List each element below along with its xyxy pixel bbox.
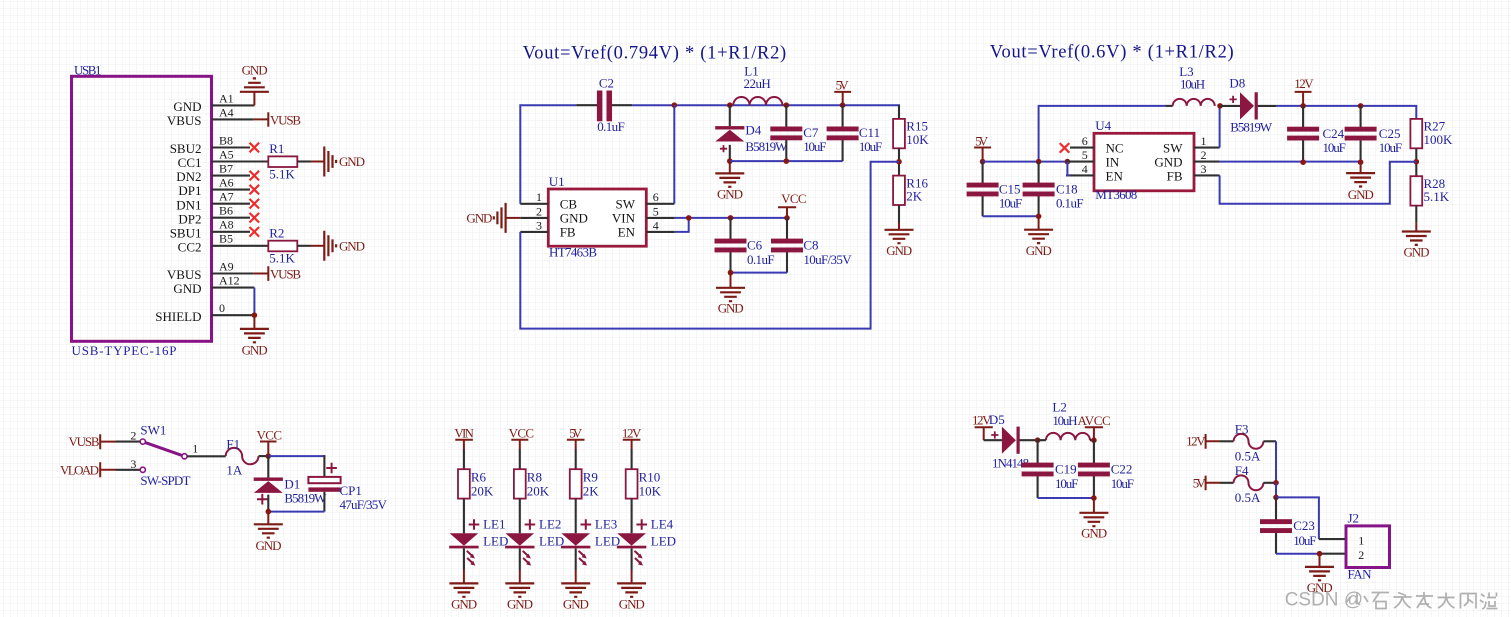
svg-text:U4: U4 [1095,118,1111,133]
junction (AVCC/C22) [1091,437,1097,443]
svg-text:GND: GND [1154,154,1182,169]
capacitor CP1 (polarized) [308,463,387,513]
junction (VCC node) [266,453,272,459]
svg-text:B8: B8 [219,133,233,147]
svg-text:0.5A: 0.5A [1235,490,1261,505]
ground (below R16) [885,230,914,258]
diode D4 B5819W [715,105,788,161]
junction (C6 bottom) [728,270,734,276]
net label VUSB (A9) [254,266,302,281]
svg-text:10uF: 10uF [859,139,882,154]
pin A1 GND [173,91,254,114]
svg-text:FB: FB [560,225,576,240]
junction (5V / C11) [840,102,846,108]
svg-text:CC1: CC1 [178,155,202,170]
svg-text:10uF: 10uF [1055,476,1078,491]
wire 12V to F3 [1220,440,1234,442]
svg-text:R9: R9 [583,470,598,485]
ground (LE3) [561,583,590,611]
svg-text:4: 4 [1082,162,1088,176]
svg-text:FB: FB [1167,168,1183,183]
svg-text:10uH: 10uH [1180,76,1205,91]
capacitor C24 [1287,106,1346,163]
svg-text:GND: GND [717,187,743,202]
svg-text:2: 2 [536,204,542,218]
svg-text:VIN: VIN [612,211,636,226]
svg-text:CB: CB [560,197,578,212]
wire F3 to node [1263,441,1276,483]
junction (C18 bottom) [1036,214,1042,220]
wire R28 to ground [1415,206,1417,232]
watermark CSDN [1285,590,1498,611]
svg-text:10uF/35V: 10uF/35V [803,252,852,267]
svg-text:VCC: VCC [257,428,283,443]
pin 0 SHIELD [155,301,254,324]
svg-text:GND: GND [173,281,201,296]
resistor R28 [1410,176,1449,206]
wire R9 to LE3 [575,499,577,534]
svg-text:VIN: VIN [454,425,474,440]
svg-text:0.5A: 0.5A [1235,448,1261,463]
wire node down [1275,483,1277,498]
wire boost top rail [1039,106,1417,162]
wire R1 to ground [297,160,324,162]
svg-text:LE3: LE3 [595,517,617,532]
power 5V [834,78,851,106]
svg-text:1: 1 [192,441,198,455]
ground (below C6) [716,273,745,316]
svg-text:5V: 5V [836,78,850,93]
pin B6 DP2 [178,204,250,227]
svg-text:LE1: LE1 [483,517,505,532]
junction (C25 top) [1358,103,1364,109]
wire F4 to node [1263,482,1276,484]
diode D5 1N4148 [984,412,1038,471]
svg-text:6: 6 [1082,134,1088,148]
svg-text:GND: GND [339,154,365,169]
svg-text:J2: J2 [1348,510,1360,525]
wire A1 to GND [253,92,255,106]
svg-text:VUSB: VUSB [69,434,100,449]
ground (LE1) [449,583,478,611]
resistor R9 [570,469,599,498]
svg-text:0.1uF: 0.1uF [747,252,775,267]
wire input rail [983,161,1066,163]
junction (C23 top node) [1273,495,1279,501]
svg-text:12V: 12V [622,425,642,440]
svg-text:HT7463B: HT7463B [549,245,597,260]
svg-text:R8: R8 [527,470,542,485]
svg-text:NC: NC [1106,140,1124,155]
wire output gnd rail [1220,162,1361,163]
svg-text:10K: 10K [639,483,662,498]
junction (shield node) [252,312,258,318]
diode D8 B5819W [1220,75,1276,134]
svg-text:B5819W: B5819W [745,139,788,154]
svg-text:0.1uF: 0.1uF [1056,196,1084,211]
svg-text:GND: GND [560,211,588,226]
power 12V (LED4) [622,425,642,449]
wire VCC to R8 [519,449,521,470]
svg-text:GND: GND [173,99,201,114]
junction (SW node top) [672,102,678,108]
svg-text:CSDN @: CSDN @ [1285,590,1363,611]
svg-text:FAN: FAN [1348,567,1373,582]
svg-text:10K: 10K [906,132,929,147]
svg-text:D1: D1 [284,477,300,492]
svg-text:VLOAD: VLOAD [60,462,99,477]
wire VIN rail [675,217,787,219]
diode D1 B5819W [254,456,327,512]
junction (L1 left / D4) [727,102,733,108]
junction (C7 bottom) [784,158,790,164]
svg-text:GND: GND [451,597,477,612]
junction (D1 bottom) [266,509,272,515]
svg-text:VUSB: VUSB [270,113,301,128]
pin A5 CC1 [178,147,269,170]
svg-text:20K: 20K [527,483,550,498]
svg-text:GND: GND [1404,245,1430,260]
wire R2 to ground [297,245,324,247]
svg-text:B6: B6 [219,204,233,218]
svg-text:A1: A1 [219,91,234,105]
ground GND (USB bottom) [240,315,269,357]
svg-text:1A: 1A [226,463,243,478]
junction (D5/L2/C19) [1035,437,1041,443]
inductor L1 [733,63,782,105]
junction (IN pin node) [1065,159,1071,165]
svg-text:A7: A7 [219,190,234,204]
resistor R1 [268,141,297,181]
svg-text:5V: 5V [569,425,583,440]
svg-text:GND: GND [1348,187,1374,202]
svg-text:VCC: VCC [781,191,807,206]
label USB-TYPEC-16P [72,343,177,358]
svg-text:DP1: DP1 [178,183,201,198]
svg-text:10uF: 10uF [999,196,1022,211]
power 12V [1294,76,1314,106]
no-connect X (U4 pin6) [1060,143,1070,153]
net label VLOAD [60,462,116,477]
svg-text:VUSB: VUSB [270,267,301,282]
wire LE2 to ground [519,548,521,583]
svg-text:VBUS: VBUS [167,267,202,282]
svg-text:C22: C22 [1111,461,1133,476]
wire LE1 to ground [463,548,465,583]
wire to J2 pin1 [1276,497,1346,539]
junction (12V/C24) [1300,103,1306,109]
fuse F3 [1234,422,1264,464]
svg-text:DN1: DN1 [176,197,201,212]
svg-text:B5: B5 [219,232,233,246]
svg-text:12V: 12V [1294,76,1314,91]
svg-text:B5819W: B5819W [284,491,327,506]
wire VLOAD to SW1 pin3 [116,469,141,471]
svg-text:10uF: 10uF [1111,476,1134,491]
svg-text:C25: C25 [1379,126,1401,141]
svg-text:GND: GND [1081,525,1107,540]
pin 3 (FB) [520,218,548,232]
svg-text:R1: R1 [269,141,284,156]
IC U4 MT3608 [1094,118,1194,202]
inductor L3 [1165,64,1214,106]
svg-text:MT3608: MT3608 [1095,187,1137,202]
wire 5V to F4 [1220,482,1234,484]
svg-text:F1: F1 [226,436,240,451]
svg-text:A8: A8 [219,218,234,232]
pin B8 SBU2 [170,133,250,156]
wire LE4 to ground [631,548,633,583]
svg-text:SBU1: SBU1 [170,225,202,240]
pin 5 (IN) [1066,148,1094,162]
power VCC (LED2) [509,425,534,449]
svg-text:0.1uF: 0.1uF [597,119,625,134]
wire VCC node to CP1 [268,455,324,477]
fuse F4 [1234,463,1264,505]
svg-text:C2: C2 [599,76,614,91]
svg-text:LE2: LE2 [539,517,561,532]
ground (sideways, R1) [324,147,365,177]
capacitor C23 [1260,497,1317,553]
resistor R8 [514,469,550,498]
resistor R6 [458,469,494,498]
svg-text:C23: C23 [1293,518,1315,533]
svg-text:GND: GND [886,243,912,258]
wire C15-C18 bottom [983,215,1039,217]
resistor R16 [893,175,928,205]
svg-text:GND: GND [466,211,492,226]
formula title 1 [523,44,787,64]
svg-text:1: 1 [1358,533,1364,547]
wire EN tie [675,218,689,232]
ground (below C22) [1079,498,1108,540]
wire SW to top rail [1219,106,1221,148]
wire VIN to R6 [463,449,465,470]
svg-text:4: 4 [653,218,659,232]
svg-text:12V: 12V [1186,434,1206,449]
svg-text:LE4: LE4 [651,517,674,532]
capacitor C6 [715,218,775,273]
svg-text:C18: C18 [1056,181,1078,196]
svg-text:GND: GND [256,538,282,553]
power 5V (LED3) [567,425,585,449]
svg-text:SW1: SW1 [140,423,166,438]
ground (sideways, U1 pin2) [466,203,520,233]
svg-text:2: 2 [130,429,136,443]
no-connect X (B7) [250,171,260,181]
svg-text:5.1K: 5.1K [269,166,295,181]
ground (below R28) [1402,232,1431,260]
pin 4 (EN) [1066,162,1094,176]
svg-text:3: 3 [130,457,136,471]
power 5V (input) [974,133,991,161]
svg-text:GND: GND [507,597,533,612]
power VCC [778,191,807,218]
svg-text:10uH: 10uH [1052,413,1077,428]
LED LE4 [617,517,676,566]
svg-text:A4: A4 [219,105,234,119]
wire R8 to LE2 [519,499,521,534]
svg-text:IN: IN [1106,154,1120,169]
pin 4 (EN) [646,218,675,232]
wire FB net (boost) [1220,162,1417,204]
pin 6 (NC) [1070,134,1094,148]
wire R27-R28 [1415,148,1417,176]
svg-text:USB1: USB1 [74,63,102,78]
svg-text:GND: GND [563,597,589,612]
svg-text:LED: LED [651,534,676,549]
svg-text:Vout=Vref(0.794V) * (1+R1/R2): Vout=Vref(0.794V) * (1+R1/R2) [523,44,787,64]
svg-text:3: 3 [1201,162,1207,176]
svg-text:C11: C11 [859,125,880,140]
svg-text:LED: LED [539,534,564,549]
svg-text:CP1: CP1 [340,483,362,498]
svg-text:5: 5 [653,204,659,218]
svg-text:SW-SPDT: SW-SPDT [140,473,190,488]
svg-text:GND: GND [1026,243,1052,258]
svg-text:U1: U1 [549,174,565,189]
capacitor C2 [597,76,625,135]
svg-text:SW: SW [1163,140,1183,155]
wire CP1 bottom [268,511,324,513]
svg-text:D5: D5 [989,412,1005,427]
svg-text:2: 2 [1358,548,1364,562]
junction (L1 right / C7) [784,102,790,108]
net label VUSB (A4) [254,112,302,127]
LED LE3 [561,517,620,566]
svg-text:5.1K: 5.1K [1424,189,1450,204]
resistor R2 [268,226,297,266]
wire R10 to LE4 [631,499,633,534]
net label VUSB (switch) [69,434,116,449]
capacitor C22 [1078,440,1134,498]
pin A4 VBUS [167,105,254,128]
svg-text:1: 1 [536,190,542,204]
svg-text:GND: GND [242,63,268,78]
net label 5V (fan) [1193,475,1220,490]
junction (C6 top) [728,215,734,221]
capacitor C25 [1345,106,1403,163]
fuse F1 [226,436,259,477]
svg-text:EN: EN [618,225,636,240]
wire gnd rail (D4-C7-C11) [730,160,843,162]
connector J2 FAN [1346,510,1390,581]
svg-text:R6: R6 [471,470,487,485]
junction (5V/C15) [980,159,986,165]
IC U1 HT7463B [548,174,646,260]
svg-text:22uH: 22uH [744,76,771,91]
junction (FB divider) [896,159,902,165]
ground (fan) [1305,554,1334,595]
pin 1 (SW) [1194,134,1220,148]
switch SW1 SW-SPDT [130,423,198,489]
svg-text:R10: R10 [639,470,661,485]
junction (C24 bottom) [1300,159,1306,165]
svg-text:1: 1 [1201,134,1207,148]
wire 5V to R9 [575,449,577,470]
junction (C25 bottom) [1358,159,1364,165]
LED LE2 [505,517,564,566]
ground (sideways, R2) [324,231,365,261]
svg-text:2K: 2K [906,189,923,204]
ground GND (top, flipped) [240,63,269,92]
svg-text:D8: D8 [1229,75,1245,90]
svg-text:CC2: CC2 [178,239,202,254]
wire 12V to R10 [631,449,633,470]
wire VUSB to SW1 pin2 [116,441,141,443]
svg-text:F4: F4 [1235,463,1249,478]
ground (LE2) [505,583,534,611]
svg-text:C24: C24 [1323,126,1345,141]
junction (gnd node fan) [1317,551,1323,557]
pin A6 DP1 [178,176,250,199]
svg-text:AVCC: AVCC [1078,413,1111,428]
inductor L2 [1038,400,1094,441]
ground (below C25) [1346,163,1375,202]
junction (L3/D8 node) [1217,103,1223,109]
svg-text:GND: GND [718,301,744,316]
svg-text:A12: A12 [219,274,240,288]
pin A9 VBUS [167,259,254,282]
capacitor C19 [1022,440,1079,498]
wire C23 bottom to J2 pin2 [1276,553,1346,555]
junction (C18 top) [1036,159,1042,165]
power VIN (LED1) [454,425,474,449]
wire R6 to LE1 [463,499,465,534]
ground (below D1) [254,512,283,553]
svg-text:2: 2 [1201,148,1207,162]
svg-text:10uF: 10uF [803,139,826,154]
resistor R27 [1410,119,1453,149]
LED LE1 [449,517,508,566]
svg-text:LED: LED [483,534,508,549]
svg-text:6: 6 [653,190,659,204]
pin A8 SBU1 [170,218,250,241]
svg-text:LED: LED [595,534,620,549]
net label 12V (fan) [1186,434,1220,449]
svg-text:VBUS: VBUS [167,113,202,128]
no-connect X (A8) [250,227,260,237]
svg-text:3: 3 [536,218,542,232]
resistor R15 [893,105,929,148]
svg-text:D4: D4 [745,122,761,137]
power 12V (filter) [972,412,993,440]
pin 6 (SW) [646,190,674,204]
wire R15-R16 [898,148,900,175]
ground (below D4) [715,161,744,201]
pin 2 (GND) [520,204,548,218]
svg-text:10uF: 10uF [1323,140,1346,155]
svg-text:GND: GND [619,597,645,612]
svg-text:5.1K: 5.1K [269,251,295,266]
wire SW vertical [673,105,675,204]
wire C19-C22 bottom [1038,497,1094,499]
svg-text:C15: C15 [999,181,1021,196]
wire C2 leads [576,104,632,106]
junction (C22 bottom) [1091,495,1097,501]
no-connect X (A6) [250,185,260,195]
svg-text:USB-TYPEC-16P: USB-TYPEC-16P [72,343,177,358]
svg-text:20K: 20K [471,483,494,498]
pin B5 CC2 [178,232,269,255]
svg-text:VCC: VCC [509,425,534,440]
pin 5 (VIN) [646,204,675,218]
svg-text:DP2: DP2 [178,211,201,226]
wire FB net [520,162,899,329]
svg-text:10uF: 10uF [1293,533,1316,548]
svg-text:GND: GND [339,238,365,253]
no-connect X (B8) [250,143,260,153]
